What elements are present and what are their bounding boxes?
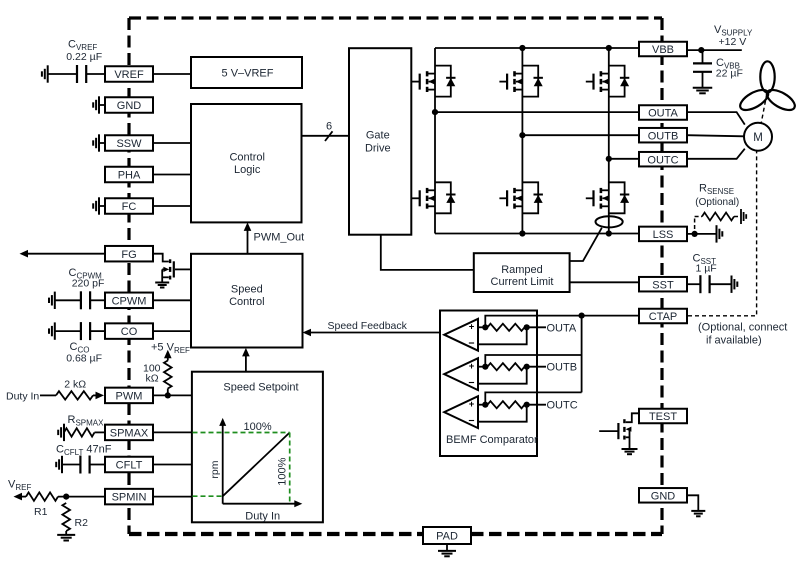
wire PWM pin to Speed Setpoint <box>153 394 192 396</box>
svg-text:OUTC: OUTC <box>647 154 678 166</box>
transistor Q3 high-side phase B <box>522 66 538 97</box>
svg-text:if available): if available) <box>706 334 762 346</box>
wire LSS bottom rail <box>435 233 639 235</box>
svg-text:Control: Control <box>229 152 264 164</box>
block U_BEMF BEMF Comparator <box>440 311 537 457</box>
svg-text:SSW: SSW <box>116 138 142 150</box>
junction node OUTB <box>519 132 525 138</box>
pin VBB <box>639 42 687 57</box>
wire SSW pin to Control Logic <box>153 142 191 144</box>
transistor Q4 low-side phase B <box>522 182 538 213</box>
svg-text:Speed Setpoint: Speed Setpoint <box>223 381 298 393</box>
wire PWM_Out Speed Control to Control Logic <box>247 228 249 254</box>
capacitor C_CFLT with ground <box>61 456 63 473</box>
svg-text:CTAP: CTAP <box>649 311 678 323</box>
pin OUTC <box>639 152 687 167</box>
wire Gate Drive to Ramped Current Limit <box>381 235 474 270</box>
svg-text:Speed: Speed <box>231 284 263 296</box>
ground at SSW pin <box>98 134 100 151</box>
wire LSS to ground <box>687 233 717 235</box>
graph green dashed 100% horizontal <box>193 432 290 434</box>
op-amp comparator U1A with feedback resistor, output OUTA <box>444 319 478 351</box>
svg-text:2 kΩ: 2 kΩ <box>64 379 86 391</box>
ground at FC pin <box>98 197 100 214</box>
svg-text:Speed Feedback: Speed Feedback <box>328 320 408 332</box>
resistor 2k on PWM input <box>40 394 56 396</box>
wire PHA pin to Control Logic <box>153 174 191 176</box>
svg-text:FG: FG <box>121 249 136 261</box>
svg-text:0.22 µF: 0.22 µF <box>66 51 102 63</box>
svg-text:(Optional): (Optional) <box>695 197 739 208</box>
svg-text:SPMAX: SPMAX <box>110 428 149 440</box>
svg-text:PWM_Out: PWM_Out <box>254 232 305 244</box>
svg-text:6: 6 <box>326 121 332 133</box>
wire SPMAX pin to Speed Setpoint <box>153 431 192 433</box>
block U_GD Gate Drive <box>349 48 411 235</box>
junction bottom rail / leg C <box>606 230 612 236</box>
svg-text:1 µF: 1 µF <box>696 263 717 275</box>
block U_5V 5 V-VREF regulator <box>191 57 302 88</box>
svg-text:M: M <box>753 132 763 144</box>
IC package boundary (dashed) bottom edge <box>129 532 662 536</box>
junction bottom rail / leg B <box>519 230 525 236</box>
svg-text:CO: CO <box>121 326 138 338</box>
pin SSW <box>105 135 153 151</box>
wire OUTC to motor <box>687 149 745 159</box>
wire phase leg C <box>608 48 610 234</box>
resistor 100k pull-up to +5V <box>164 350 172 359</box>
wire Speed Feedback BEMF to Speed Control <box>308 332 440 334</box>
wire OUTC phase line <box>609 158 639 160</box>
pin PAD <box>423 527 471 544</box>
fan shaft dashed <box>761 94 767 123</box>
IC package boundary (dashed) top edge <box>129 16 662 19</box>
pin CPWM <box>105 293 153 309</box>
ground at LSS <box>716 225 718 242</box>
motor M1 circle <box>744 123 772 151</box>
fan blade lower-left <box>737 86 771 114</box>
svg-text:VREF: VREF <box>114 69 144 81</box>
svg-text:PHA: PHA <box>118 170 141 182</box>
wire Ramped Current Limit to SST pin <box>570 281 639 283</box>
ground at GND pin <box>98 96 100 113</box>
pin FC <box>105 198 153 214</box>
IC package boundary (dashed) left edge <box>127 18 130 534</box>
junction CTAP reference node <box>579 313 585 319</box>
transistor Q2 low-side phase A <box>435 182 451 213</box>
resistor R1 to VREF <box>14 493 23 501</box>
capacitor C_SST with ground <box>687 283 700 285</box>
junction node OUTC <box>606 156 612 162</box>
svg-text:OUTA: OUTA <box>648 108 678 120</box>
svg-text:rpm: rpm <box>209 460 221 478</box>
graph transfer-function diagonal <box>223 433 290 497</box>
junction top rail / leg B <box>519 45 525 51</box>
svg-text:−: − <box>468 377 474 389</box>
svg-text:−: − <box>468 415 474 427</box>
junction R1 / R2 / SPMIN <box>63 494 69 500</box>
svg-text:5 V–VREF: 5 V–VREF <box>222 67 274 79</box>
wire VBB to supply <box>687 49 742 51</box>
wire OUTA phase line <box>435 111 639 113</box>
svg-text:R1: R1 <box>34 506 48 518</box>
wire CTAP reference bus vertical <box>581 316 583 393</box>
svg-text:100%: 100% <box>244 421 272 433</box>
svg-text:OUTC: OUTC <box>547 400 578 412</box>
pin SST <box>639 277 687 292</box>
wire SPMIN pin to Speed Setpoint <box>153 496 192 498</box>
resistor R_SPMAX with ground <box>63 424 65 441</box>
wire FG output with arrow <box>26 253 105 255</box>
svg-text:PWM: PWM <box>116 391 143 403</box>
wire VREF pin to 5V-VREF block <box>153 73 191 75</box>
graph x-axis Duty In <box>223 503 297 505</box>
svg-text:OUTB: OUTB <box>648 130 679 142</box>
wire CFLT pin to Speed Setpoint <box>153 464 192 466</box>
wire OUTB phase line <box>522 134 639 136</box>
svg-text:Current Limit: Current Limit <box>491 276 554 288</box>
svg-text:(Optional, connect: (Optional, connect <box>698 321 787 333</box>
wire FC pin to Control Logic <box>153 205 191 207</box>
transistor Q_TEST at TEST pin <box>626 413 639 422</box>
wire CTAP optional dashed to motor center <box>688 152 757 316</box>
junction PWM / 100k <box>165 392 171 398</box>
capacitor C_CPWM with ground <box>54 292 56 309</box>
op-amp comparator U2A with feedback resistor, output OUTB <box>444 358 478 390</box>
wire phase leg A <box>434 48 436 234</box>
pin OUTB <box>639 128 687 143</box>
svg-text:FC: FC <box>122 201 137 213</box>
svg-text:Drive: Drive <box>365 142 391 154</box>
wire VBB top rail <box>435 47 639 49</box>
current sense ellipse on phase C leg <box>596 216 623 227</box>
junction LSS / R_SENSE <box>692 231 698 237</box>
junction node OUTA <box>432 109 438 115</box>
wire Speed Setpoint to Speed Control <box>245 354 247 372</box>
svg-text:0.68 µF: 0.68 µF <box>66 353 102 365</box>
pin OUTA <box>639 105 687 120</box>
capacitor C_VREF with ground <box>47 65 49 82</box>
transistor Q6 low-side phase C <box>609 182 625 213</box>
block U_CL Control Logic <box>191 104 302 222</box>
pin FG <box>105 246 153 262</box>
svg-text:220 pF: 220 pF <box>72 277 105 289</box>
wire phase leg B <box>521 48 523 234</box>
svg-text:PAD: PAD <box>436 531 458 543</box>
svg-text:Control: Control <box>229 296 264 308</box>
fan blade up <box>760 61 774 92</box>
pin SPMAX <box>105 425 153 441</box>
svg-text:SPMIN: SPMIN <box>112 492 147 504</box>
svg-text:100%: 100% <box>276 457 288 485</box>
block U_SC Speed Control <box>191 254 303 348</box>
svg-text:OUTA: OUTA <box>547 322 577 334</box>
fan blade lower-right <box>764 86 798 114</box>
svg-text:CFLT: CFLT <box>116 460 143 472</box>
pin GND <box>105 97 153 113</box>
op-amp comparator U3A with feedback resistor, output OUTC <box>444 396 478 428</box>
wire CO pin to Speed Control <box>153 330 191 332</box>
svg-text:+: + <box>469 322 475 333</box>
svg-text:OUTB: OUTB <box>547 362 578 374</box>
resistor R_SENSE optional (dashed connections) <box>694 217 696 230</box>
pin TEST <box>639 409 687 424</box>
svg-text:CPWM: CPWM <box>112 295 147 307</box>
svg-text:GND: GND <box>117 100 142 112</box>
svg-text:R2: R2 <box>75 517 89 529</box>
capacitor C_VBB with ground <box>702 50 704 63</box>
svg-text:+12 V: +12 V <box>719 36 747 48</box>
transistor Q_FG open-drain at FG pin <box>153 254 169 262</box>
svg-text:+: + <box>469 399 475 410</box>
wire OUTB to motor <box>687 135 744 136</box>
graph green dashed SPMIN level <box>193 495 223 497</box>
svg-text:22 µF: 22 µF <box>716 67 743 79</box>
resistor R2 to ground <box>62 503 70 531</box>
transistor Q1 high-side phase A <box>435 66 451 97</box>
ground at GND (right) <box>691 510 705 512</box>
block U_SS Speed Setpoint <box>192 372 323 523</box>
svg-text:BEMF Comparator: BEMF Comparator <box>446 434 538 446</box>
svg-text:+: + <box>469 361 475 372</box>
IC package boundary (dashed) right edge <box>660 18 663 534</box>
svg-text:Gate: Gate <box>366 129 390 141</box>
capacitor C_CO with ground <box>54 322 56 339</box>
pin CO <box>105 323 153 339</box>
wire GND pin to ground <box>687 495 698 511</box>
graph green dashed 100% vertical <box>289 433 291 504</box>
transistor Q5 high-side phase C <box>609 66 625 97</box>
svg-text:LSS: LSS <box>653 229 674 241</box>
svg-text:Ramped: Ramped <box>501 264 543 276</box>
wire current sense to Ramped Current Limit <box>570 228 602 261</box>
svg-text:kΩ: kΩ <box>146 373 159 385</box>
svg-text:TEST: TEST <box>649 411 677 423</box>
pin PWM <box>105 388 153 404</box>
wire CPWM pin to Speed Control <box>153 299 191 301</box>
svg-text:GND: GND <box>651 490 676 502</box>
svg-text:−: − <box>468 338 474 350</box>
junction top rail / leg C <box>606 45 612 51</box>
block U_RCL Ramped Current Limit <box>474 253 570 292</box>
pin VREF <box>105 66 153 82</box>
svg-text:Logic: Logic <box>234 164 261 176</box>
bus slash mark <box>325 131 333 141</box>
svg-text:Duty In: Duty In <box>245 511 280 523</box>
pin PHA <box>105 167 153 183</box>
pin SPMIN <box>105 489 153 505</box>
junction VBB / C_VBB <box>698 47 704 53</box>
svg-text:Duty In: Duty In <box>6 391 39 403</box>
wire Control Logic to Gate Drive (bus) <box>302 135 350 137</box>
pin LSS <box>639 227 687 242</box>
ground at PAD <box>446 544 448 551</box>
pin CFLT <box>105 457 153 473</box>
graph y-axis rpm <box>222 424 224 504</box>
pin CTAP <box>639 309 687 324</box>
wire OUTA to motor <box>687 112 745 125</box>
svg-text:VBB: VBB <box>652 44 674 56</box>
svg-text:SST: SST <box>652 279 674 291</box>
pin GND <box>639 488 687 503</box>
